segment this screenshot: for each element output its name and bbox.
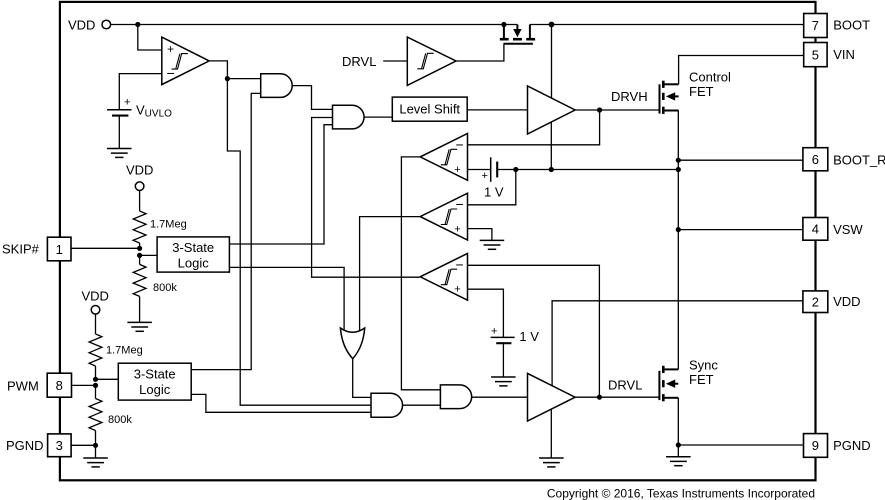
- wire Sync FET source to PGND: [677, 398, 679, 445]
- svg-text:+: +: [124, 96, 130, 108]
- AND gate AND2: [333, 105, 365, 129]
- battery V_UVLO: [107, 96, 172, 148]
- ground under Sync FET: [666, 457, 691, 466]
- svg-text:VDD: VDD: [82, 289, 109, 304]
- wire junction to ground: [677, 445, 679, 457]
- svg-text:Logic: Logic: [178, 255, 210, 270]
- transistor Sync FET: [659, 366, 678, 402]
- svg-text:1.7Meg: 1.7Meg: [150, 219, 187, 231]
- svg-text:FET: FET: [689, 84, 714, 99]
- svg-text:6: 6: [812, 152, 819, 167]
- wire VDD pin to low-side driver supply: [552, 301, 803, 386]
- node SKIP divider tap 2: [137, 253, 142, 258]
- wire pin3 to divider bottom: [71, 444, 95, 446]
- wire AND3 output to AND4 input 2: [402, 404, 440, 406]
- node PWM divider tap 1: [93, 377, 98, 382]
- 3-State Logic block U3: [118, 363, 191, 400]
- battery B2 1V: [491, 326, 540, 377]
- svg-text:1.7Meg: 1.7Meg: [106, 345, 143, 357]
- wire VIN pin to Control FET drain: [679, 56, 804, 85]
- wire VDD rail to boot switch: [111, 24, 518, 26]
- node boot switch source: [501, 22, 506, 27]
- ground under battery B2: [491, 377, 515, 386]
- wire V_UVLO to UVLO comparator - input: [119, 74, 162, 110]
- ground under low-side driver: [539, 458, 564, 467]
- wire AND4 output to low-side driver: [472, 396, 528, 398]
- svg-text:+: +: [167, 42, 174, 56]
- node PWM divider tap 2: [93, 383, 98, 388]
- wire 3-state 2 output B to AND3 input 3: [191, 394, 371, 412]
- svg-text:1 V: 1 V: [519, 329, 539, 344]
- svg-text:VIN: VIN: [833, 47, 855, 62]
- svg-text:8: 8: [56, 378, 63, 393]
- wire junction to ground: [95, 445, 97, 458]
- op-amp U1 UVLO comparator: [162, 37, 209, 85]
- svg-text:Logic: Logic: [139, 382, 171, 397]
- pin 2 VDD: [803, 291, 861, 313]
- node DRVL branch: [597, 395, 602, 400]
- svg-text:VDD: VDD: [68, 18, 95, 33]
- wire DRVH sense to comparator C1 - input: [468, 110, 600, 145]
- svg-text:VSW: VSW: [833, 222, 863, 237]
- ground under R2: [127, 322, 151, 331]
- svg-text:+: +: [454, 284, 460, 296]
- battery B1 1V: [482, 157, 504, 199]
- op-amp C1 comparator (BOOT_R sense): [420, 134, 467, 181]
- pin 9 PGND: [804, 434, 871, 458]
- VDD terminal above PWM divider: [82, 289, 109, 315]
- op-amp high-side driver: [528, 86, 576, 134]
- wire to BOOT_R pin: [678, 159, 803, 161]
- wire C2 output to OR gate input 2: [360, 217, 421, 331]
- resistor R2 800k: [133, 255, 177, 322]
- node SKIP divider tap 1: [137, 246, 142, 251]
- svg-text:3: 3: [56, 438, 63, 453]
- wire 3-state 1 output B to OR gate input 1: [229, 267, 344, 331]
- wire VDD to UVLO comparator + input: [138, 25, 162, 51]
- AND gate AND1: [261, 74, 292, 98]
- transistor Q1 bootstrap switch: [500, 25, 535, 44]
- wire to PGND pin 9: [678, 444, 803, 446]
- svg-text:DRVH: DRVH: [611, 89, 648, 104]
- buffer DRVL input (top): [342, 37, 456, 85]
- op-amp C2 comparator: [420, 193, 467, 240]
- svg-text:−: −: [167, 65, 175, 81]
- wire PWM 3-state output A to AND1 input 2: [191, 93, 261, 369]
- wire tap to 3-state logic 2: [96, 378, 119, 380]
- svg-text:9: 9: [812, 438, 819, 453]
- AND gate AND3: [371, 393, 403, 417]
- wire C2 + input to ground: [468, 229, 492, 241]
- resistor R1 1.7Meg: [133, 191, 187, 249]
- node battery to C2 branch: [513, 167, 518, 172]
- pin 3 PGND: [6, 434, 71, 457]
- svg-text:Control: Control: [689, 70, 731, 85]
- svg-text:1 V: 1 V: [484, 185, 504, 200]
- svg-text:Level Shift: Level Shift: [399, 102, 460, 117]
- svg-text:+: +: [454, 164, 460, 176]
- wire C3 - input to DRVL sense: [468, 265, 600, 397]
- wire DRVH output to Control FET gate: [575, 109, 659, 111]
- svg-text:+: +: [454, 224, 460, 236]
- pin 1 SKIP#: [2, 237, 71, 261]
- node driver return on BOOT_R wire: [549, 167, 554, 172]
- OR gate (pointing down): [340, 328, 364, 359]
- Level Shift block: [392, 97, 467, 121]
- pin 6 BOOT_R: [803, 148, 885, 171]
- svg-text:BOOT: BOOT: [833, 18, 870, 33]
- svg-text:FET: FET: [689, 372, 714, 387]
- wire boot switch drain to BOOT pin: [530, 24, 804, 26]
- node VDD rail junction: [135, 22, 140, 27]
- wire BOOT to high-side driver supply: [551, 25, 553, 98]
- svg-text:Copyright © 2016, Texas Instru: Copyright © 2016, Texas Instruments Inco…: [547, 486, 815, 500]
- wire C1 output down to AND4 input 1: [401, 157, 440, 390]
- svg-text:PGND: PGND: [6, 438, 44, 453]
- 3-State Logic block U2: [157, 237, 229, 272]
- wire high-side driver return to BOOT_R: [550, 122, 552, 170]
- node BOOT_R branch: [676, 158, 681, 163]
- svg-text:1: 1: [56, 242, 63, 257]
- svg-text:Sync: Sync: [689, 358, 718, 373]
- ground under pin3: [83, 458, 108, 467]
- wire Level Shift to high-side driver: [467, 109, 527, 111]
- svg-text:+: +: [491, 326, 497, 338]
- VDD terminal above SKIP divider: [126, 163, 153, 191]
- VDD terminal (top-left): [68, 18, 111, 33]
- node pin3 ground junction: [93, 443, 98, 448]
- svg-text:VDD: VDD: [126, 163, 153, 178]
- transistor Control FET: [660, 81, 679, 114]
- svg-text:VDD: VDD: [833, 294, 860, 309]
- wire branch to comparator C2 - input: [468, 170, 516, 205]
- svg-text:PWM: PWM: [7, 379, 39, 394]
- node UVLO output branch: [225, 76, 230, 81]
- resistor R3 1.7Meg: [89, 314, 143, 379]
- wire AND1 output to AND2 input 1: [292, 86, 332, 110]
- wire pin1 to divider: [71, 247, 140, 249]
- wire tap to 3-state logic 1: [140, 254, 158, 256]
- wire AND2 output to Level Shift: [364, 116, 392, 118]
- node 1V rail branch: [676, 167, 681, 172]
- pin 4 VSW: [803, 218, 864, 241]
- ground under V_UVLO: [107, 149, 132, 158]
- svg-text:5: 5: [812, 47, 819, 62]
- wire C3 + input to 1V battery B2: [468, 289, 504, 337]
- op-amp low-side driver: [528, 373, 576, 421]
- svg-text:−: −: [456, 137, 464, 153]
- wire DRVL output to Sync FET gate: [575, 396, 659, 398]
- svg-text:BOOT_R: BOOT_R: [833, 153, 885, 168]
- svg-text:DRVL: DRVL: [608, 378, 642, 393]
- ground under C2: [480, 240, 505, 249]
- wire to VSW pin: [678, 229, 803, 231]
- svg-text:800k: 800k: [153, 282, 177, 294]
- wire 1V battery to VSW rail (BOOT_R node): [497, 169, 678, 171]
- node DRVH branch: [597, 107, 602, 112]
- wire SKIP 3-state output A to AND2 input 3: [229, 125, 332, 244]
- svg-text:4: 4: [812, 222, 819, 237]
- wire OR output to AND3 input 1: [353, 359, 371, 398]
- node VSW branch: [676, 227, 681, 232]
- svg-text:−: −: [456, 196, 464, 212]
- pin 5 VIN: [804, 43, 855, 67]
- wire pin8 to divider: [72, 384, 96, 386]
- node PGND junction: [676, 442, 681, 447]
- svg-text:+: +: [482, 170, 488, 182]
- pin 8 PWM: [7, 373, 72, 397]
- wire UVLO output to AND1 input 1: [227, 78, 260, 80]
- pin 7 BOOT: [804, 14, 870, 38]
- AND gate AND4: [440, 385, 471, 409]
- svg-text:PGND: PGND: [833, 438, 871, 453]
- svg-text:3-State: 3-State: [172, 240, 214, 255]
- svg-text:7: 7: [812, 18, 819, 33]
- svg-text:800k: 800k: [108, 414, 132, 426]
- wire C1 + input to 1V battery: [468, 169, 491, 171]
- svg-text:2: 2: [812, 294, 819, 309]
- wire VSW rail (Control FET source to Sync FET drain): [677, 111, 679, 370]
- wire low-side driver return to ground: [550, 409, 552, 458]
- op-amp C3 comparator: [420, 253, 467, 300]
- svg-text:DRVL: DRVL: [342, 54, 376, 69]
- wire comparator C3 output to AND2 input 2: [312, 118, 420, 278]
- svg-text:SKIP#: SKIP#: [2, 241, 40, 256]
- resistor R4 800k: [89, 385, 132, 445]
- wire UVLO comparator output down to lower AND gate: [209, 61, 371, 405]
- wire DRVL buffer to boot switch gate: [456, 44, 504, 61]
- node BOOT supply branch: [549, 22, 555, 28]
- svg-text:−: −: [456, 256, 464, 272]
- svg-text:3-State: 3-State: [134, 366, 176, 381]
